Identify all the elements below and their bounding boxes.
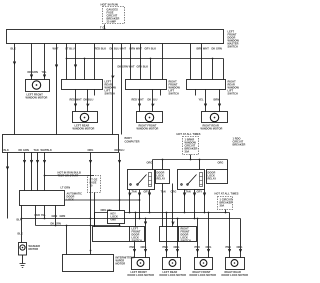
- svg-text:GRY BLK: GRY BLK: [145, 47, 157, 51]
- svg-text:WHT: WHT: [53, 47, 59, 51]
- rail B drop 177.5 to LR lock motor: [177, 219, 179, 258]
- connector: [43, 75, 45, 77]
- left rear door lock motor: [163, 258, 181, 270]
- svg-text:ORG: ORG: [218, 161, 224, 165]
- drop to relay2 coil right edge: [227, 160, 229, 170]
- body computer box: [3, 135, 119, 153]
- svg-text:SWITCH: SWITCH: [228, 92, 238, 96]
- left rear window motor box: [73, 112, 98, 123]
- drop to relay2 switch: [199, 160, 201, 170]
- svg-text:GRY: GRY: [197, 190, 203, 194]
- svg-text:DK GRN: DK GRN: [212, 47, 222, 51]
- right front door lock switch box: [160, 227, 197, 242]
- connector arrows on computer output wires: [23, 160, 25, 162]
- svg-text:DK BLU: DK BLU: [148, 98, 158, 102]
- wire master to box2 a: [130, 44, 132, 80]
- node rail-212: [212, 59, 214, 80]
- svg-text:ORG: ORG: [88, 148, 94, 152]
- label T OL: [100, 26, 106, 30]
- relay1 coil wire down to right door switch: [162, 184, 164, 227]
- fuse output down to rail A: [94, 193, 96, 227]
- svg-text:DK GRN: DK GRN: [19, 148, 29, 152]
- rail B end drop to RR lock motor: [240, 219, 242, 258]
- door lock relay coil box: [156, 170, 170, 184]
- svg-text:TAN: TAN: [132, 190, 137, 194]
- rail B: [22, 218, 241, 220]
- box3 output wires: [205, 90, 207, 112]
- ground under washer motor: [22, 255, 24, 264]
- svg-text:BLK: BLK: [11, 47, 16, 51]
- svg-text:PNK: PNK: [226, 245, 232, 249]
- svg-text:DOOR LOCK MOTOR: DOOR LOCK MOTOR: [128, 273, 155, 277]
- svg-text:DOOR LOCK MOTOR: DOOR LOCK MOTOR: [190, 273, 217, 277]
- labels DK GRN WHT / GRY BLK: [118, 65, 149, 69]
- svg-text:DK GRN: DK GRN: [51, 222, 61, 226]
- lockout feed riser from master: [66, 44, 68, 80]
- wire master to box3 a: [190, 44, 192, 80]
- connector: [55, 65, 57, 67]
- box1 output wires: [75, 90, 77, 112]
- svg-text:GRY BLK: GRY BLK: [137, 65, 149, 69]
- svg-text:GRN: GRN: [60, 214, 66, 218]
- svg-text:GRN: GRN: [52, 214, 58, 218]
- svg-text:UNIT: UNIT: [111, 218, 118, 222]
- door lock relay switch box: [128, 170, 155, 190]
- automatic door lock box: [20, 191, 65, 206]
- svg-text:ORG: ORG: [174, 245, 180, 249]
- wire master to box1 b: [94, 44, 96, 80]
- labels DK GRN YEL: [28, 70, 47, 74]
- rail A end drop to RR lock motor: [229, 213, 231, 258]
- left front window motor box: [26, 80, 50, 92]
- svg-text:DK BLU WHT: DK BLU WHT: [110, 47, 127, 51]
- wire BLK master to body computer: [14, 44, 16, 135]
- label HOT AT ALL TIMES mid right: [177, 132, 201, 136]
- node rail-150: [150, 59, 152, 80]
- rail C: [36, 225, 120, 227]
- right front window motor box: [137, 112, 163, 123]
- svg-text:COMPUTER: COMPUTER: [125, 140, 140, 144]
- svg-text:ORG: ORG: [171, 190, 177, 194]
- connector arrows on rail drops: [144, 222, 146, 224]
- computer output DK BLU: [119, 153, 121, 211]
- svg-text:HOT AT ALL TIMES: HOT AT ALL TIMES: [177, 132, 201, 136]
- wire master to box2 c: [162, 44, 164, 80]
- svg-text:T OL: T OL: [100, 26, 106, 30]
- box2 output wires: [139, 90, 141, 112]
- svg-text:DK BLU: DK BLU: [115, 148, 125, 152]
- svg-text:BLK: BLK: [47, 148, 52, 152]
- svg-text:MOTOR: MOTOR: [29, 247, 39, 251]
- svg-text:HOT IN RUN: HOT IN RUN: [101, 3, 118, 7]
- svg-text:BLK: BLK: [18, 232, 23, 236]
- wire WHT master to body computer: [56, 44, 58, 135]
- svg-text:DOOR LOCK MOTOR: DOOR LOCK MOTOR: [160, 273, 187, 277]
- svg-text:SWITCH: SWITCH: [132, 239, 142, 243]
- svg-text:MOTOR: MOTOR: [116, 262, 126, 266]
- connector: [112, 76, 114, 78]
- label hot in run bulb test: [58, 171, 81, 178]
- svg-text:DOOR LOCK MOTOR: DOOR LOCK MOTOR: [222, 273, 249, 277]
- svg-text:SWITCH: SWITCH: [228, 45, 238, 49]
- svg-text:RED WHT: RED WHT: [70, 98, 83, 102]
- svg-text:DK GRN: DK GRN: [28, 70, 38, 74]
- svg-text:RELAY: RELAY: [157, 177, 166, 181]
- right rear door lock motor: [226, 258, 245, 270]
- svg-text:RED BLK: RED BLK: [95, 47, 107, 51]
- right rear window lift switch box: [187, 80, 226, 90]
- right front door lock motor: [195, 258, 213, 270]
- svg-text:WINDOW MOTOR: WINDOW MOTOR: [201, 127, 223, 131]
- door unlock relay coil box: [207, 170, 228, 184]
- relay feed rail R: [153, 159, 228, 161]
- node rail-84: [66, 58, 68, 60]
- svg-text:BRN WHT: BRN WHT: [197, 47, 210, 51]
- label HOT IN RUN: [101, 3, 118, 7]
- connector on BLK wire: [13, 62, 15, 64]
- connector arrows on door lock motor wires: [133, 249, 135, 251]
- svg-text:TAN: TAN: [161, 190, 166, 194]
- wire master to box2 b: [140, 44, 142, 80]
- left front door lock switch box: [93, 227, 145, 242]
- rail B drop 145 to LF lock motor: [145, 219, 147, 258]
- svg-text:BODY: BODY: [125, 136, 133, 140]
- left switch output to LF lock motor: [134, 242, 136, 258]
- wire color labels under master switch: [11, 47, 222, 51]
- wire to LF window motor 1: [31, 44, 33, 80]
- svg-text:PNK: PNK: [195, 245, 201, 249]
- svg-text:30A: 30A: [220, 204, 225, 208]
- svg-text:SWITCH: SWITCH: [169, 92, 179, 96]
- svg-text:GRY: GRY: [144, 190, 150, 194]
- computer output BLK: [7, 153, 9, 219]
- ADL output to washer motor: [21, 206, 23, 243]
- rail A drop 135: [135, 213, 137, 227]
- svg-text:SWITCH: SWITCH: [105, 92, 115, 96]
- feed rail: [67, 58, 224, 60]
- fuse ST GE dashed box: [88, 176, 101, 193]
- computer outputs to door lock box: [24, 153, 26, 191]
- rail B drop 197.5 to RF lock motor: [197, 219, 199, 258]
- svg-text:ORG: ORG: [206, 245, 212, 249]
- drop to relay1 coil: [162, 160, 164, 170]
- svg-text:YEL: YEL: [199, 98, 204, 102]
- wire between relays down: [172, 184, 174, 227]
- rail end drop to box3: [223, 59, 225, 80]
- rail A drop 166 to LR lock motor: [166, 213, 168, 258]
- svg-text:SWITCH: SWITCH: [181, 239, 191, 243]
- svg-text:BRN: BRN: [214, 98, 220, 102]
- svg-text:25 AMP: 25 AMP: [107, 20, 117, 24]
- rail A drop 208.5 to RF lock motor: [208, 213, 210, 258]
- svg-text:LT GRN: LT GRN: [61, 186, 71, 190]
- wire rail C to wiper module: [66, 226, 68, 255]
- window circuit breaker dashed box: [183, 137, 199, 155]
- svg-text:YEL: YEL: [42, 70, 47, 74]
- master switch label: [228, 30, 240, 49]
- label HOT AT ALL TIMES bottom right: [215, 192, 239, 196]
- svg-text:LOCK: LOCK: [67, 198, 75, 202]
- left rear window lift switch box: [62, 80, 103, 90]
- ADL output to rail B: [44, 206, 46, 219]
- door unlock relay switch box: [178, 170, 205, 190]
- wire to LF window motor 2: [44, 44, 46, 80]
- svg-text:TAN: TAN: [186, 190, 191, 194]
- svg-text:WINDOW MOTOR: WINDOW MOTOR: [137, 127, 159, 131]
- washer motor box: [19, 243, 27, 256]
- branch wire to fuse: [45, 175, 95, 177]
- left front door lock motor: [132, 258, 150, 270]
- PNK ORG labels: [130, 245, 243, 249]
- svg-text:ORG YEL: ORG YEL: [101, 208, 113, 212]
- svg-text:ORG: ORG: [141, 245, 147, 249]
- svg-text:HOT AT ALL TIMES: HOT AT ALL TIMES: [215, 192, 239, 196]
- svg-text:RED WHT: RED WHT: [132, 98, 145, 102]
- svg-text:WINDOW MOTOR: WINDOW MOTOR: [26, 96, 48, 100]
- ADL output to rail C left: [35, 206, 37, 226]
- svg-text:PNK: PNK: [163, 245, 169, 249]
- computer output ORG: [90, 153, 92, 255]
- svg-text:30A: 30A: [185, 150, 190, 154]
- wire YEL master to computer: [121, 44, 123, 135]
- svg-text:ORG: ORG: [147, 161, 153, 165]
- svg-text:PNK: PNK: [130, 245, 136, 249]
- svg-text:RED YEL: RED YEL: [35, 213, 47, 217]
- relay2 output wires: [184, 190, 186, 213]
- motor symbol: [32, 81, 40, 89]
- intermittent wiper module box: [63, 255, 114, 272]
- junction dots: [129, 212, 131, 214]
- wire fuse to master switch: [104, 25, 106, 30]
- connector: [30, 75, 32, 77]
- svg-text:ORG: ORG: [237, 245, 243, 249]
- right rear window motor box: [202, 112, 228, 123]
- wire ADL output to module and relay column: [65, 199, 140, 201]
- wire DK BLU WHT master to computer: [112, 44, 114, 135]
- fuse F1 gauges fuse dashed box: [103, 7, 125, 24]
- power window master switch box: [7, 30, 224, 44]
- svg-text:DK GRN WHT: DK GRN WHT: [118, 65, 135, 69]
- rail A: [95, 212, 230, 214]
- svg-text:RELAY: RELAY: [208, 177, 217, 181]
- svg-text:WINDOW MOTOR: WINDOW MOTOR: [73, 127, 95, 131]
- wire master to box1 a: [75, 44, 77, 80]
- svg-text:DK BLU: DK BLU: [84, 98, 94, 102]
- svg-text:BLK: BLK: [4, 148, 9, 152]
- relay1 output wires: [129, 190, 131, 213]
- drop to relay1 switch: [152, 160, 154, 170]
- breaker output to rail A: [225, 210, 227, 213]
- breaker output down: [190, 155, 192, 160]
- wire master to box3 b: [201, 44, 203, 80]
- ADL output to rail C: [55, 206, 57, 226]
- svg-text:TAN: TAN: [34, 148, 39, 152]
- rail A drop to left door switch: [94, 213, 96, 227]
- right front window lift switch box: [126, 80, 167, 90]
- right edge module box: [108, 211, 125, 224]
- connector: [74, 65, 76, 67]
- svg-text:BREAKER: BREAKER: [233, 143, 246, 147]
- door lock circuit breaker dashed box: [218, 197, 233, 210]
